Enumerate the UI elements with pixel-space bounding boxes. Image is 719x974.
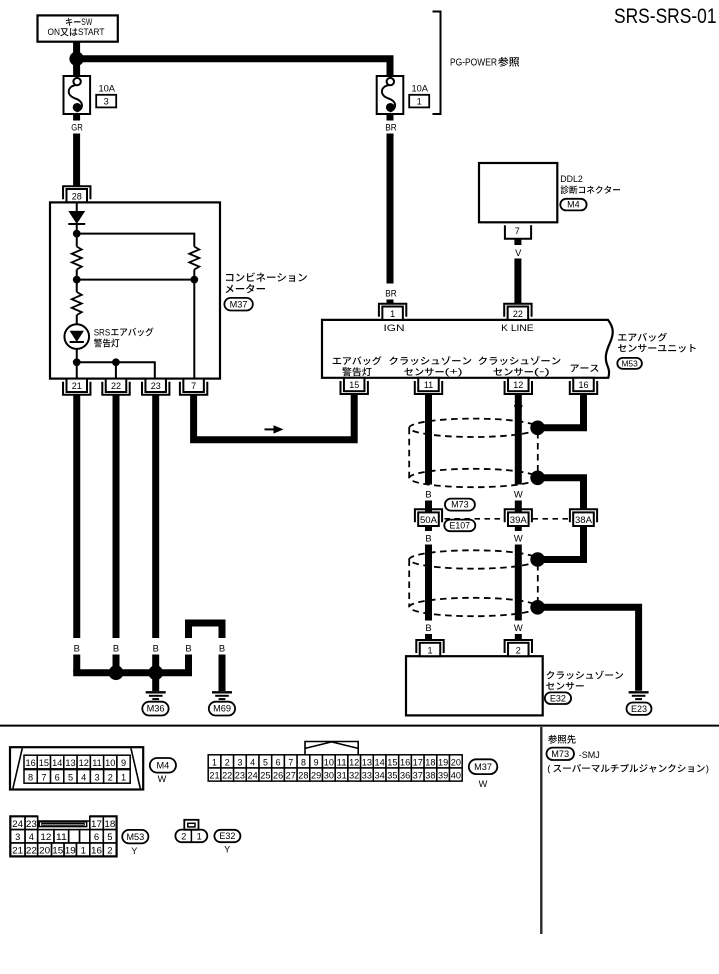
- svg-text:IGN: IGN: [384, 323, 405, 333]
- label SRSエアバッグ警告灯: [94, 327, 154, 347]
- svg-text:W: W: [479, 779, 488, 789]
- wire color label GR: [71, 114, 83, 132]
- svg-text:PG-POWER: PG-POWER: [450, 57, 497, 68]
- wire B into 50A: [425, 501, 432, 513]
- wire B terminal 23 down: [152, 395, 159, 638]
- svg-text:B: B: [425, 622, 431, 633]
- wire V to terminal 22 K LINE: [514, 259, 521, 305]
- wire key switch to junction: [73, 42, 80, 59]
- node meter bottom: [73, 358, 155, 378]
- label BR lower: [385, 288, 397, 299]
- combination meter box: [50, 202, 220, 378]
- svg-text:R: R: [351, 402, 358, 413]
- svg-text:16: 16: [91, 845, 102, 856]
- fuse F1 10A: [64, 76, 91, 114]
- svg-text:9: 9: [121, 758, 126, 768]
- svg-text:50A: 50A: [420, 515, 437, 525]
- svg-text:20: 20: [39, 845, 50, 856]
- wire right leg to ground M69: [219, 655, 226, 692]
- wire B 21 to ground bus: [73, 655, 80, 673]
- svg-text:K LINE: K LINE: [501, 323, 534, 333]
- wire shield1 to terminal 16: [538, 394, 584, 428]
- wire B terminal 21 down: [73, 395, 80, 638]
- wire color labels B B B R: [74, 402, 198, 413]
- svg-text:Y: Y: [131, 846, 137, 856]
- svg-text:33: 33: [362, 771, 372, 781]
- svg-text:19: 19: [438, 757, 448, 767]
- connector pin 7 DDL2: [505, 225, 531, 238]
- label B wire 23: [153, 642, 159, 653]
- junction node shield2 bottom: [530, 600, 545, 615]
- connector id oval E107: [444, 520, 475, 532]
- svg-text:38: 38: [425, 771, 435, 781]
- ground id oval M36: [142, 702, 168, 716]
- wire stub ground M36: [152, 673, 159, 691]
- label B wire 22: [113, 642, 119, 653]
- svg-text:-SMJ: -SMJ: [579, 749, 600, 760]
- svg-text:39A: 39A: [510, 515, 527, 525]
- svg-text:3: 3: [104, 97, 109, 107]
- resistor R1: [72, 247, 82, 270]
- svg-text:(-): (-): [534, 367, 550, 377]
- svg-text:E32: E32: [219, 831, 235, 841]
- connector terminal 28 on combination meter: [63, 186, 90, 202]
- wire shield2 to ground E23: [538, 607, 639, 691]
- svg-text:B: B: [185, 642, 191, 653]
- svg-text:8: 8: [301, 757, 306, 767]
- connector id oval E32 bottom: [214, 830, 240, 855]
- wire shield2 to connector 38A bottom: [538, 526, 584, 560]
- svg-text:5: 5: [107, 831, 112, 842]
- label クラッシュゾーンセンサー E32: [545, 671, 623, 704]
- svg-text:10: 10: [324, 757, 334, 767]
- svg-text:26: 26: [273, 771, 283, 781]
- svg-text:24: 24: [248, 771, 258, 781]
- node meter mid: [73, 270, 198, 284]
- reference divider line: [540, 727, 542, 934]
- svg-text:6: 6: [276, 757, 281, 767]
- separator line: [0, 725, 719, 727]
- wire R terminal 7 to terminal 15: [194, 395, 355, 440]
- svg-text:1: 1: [417, 97, 422, 107]
- title SRS-SRS-01: [614, 4, 717, 28]
- svg-text:7: 7: [515, 226, 520, 236]
- svg-text:11: 11: [424, 380, 433, 390]
- shield cylinder 2: [409, 550, 538, 616]
- connector terminal 1 crash sensor: [416, 640, 443, 656]
- wire junction to fuse F2: [77, 59, 390, 77]
- node meter top: [73, 230, 194, 247]
- svg-text:7: 7: [288, 757, 293, 767]
- connector pin layout M53: [10, 816, 116, 856]
- label B right leg: [219, 642, 225, 653]
- label DDL2 診断コネクター M4: [560, 173, 620, 210]
- svg-text:Y: Y: [224, 844, 230, 854]
- svg-text:V: V: [515, 247, 522, 258]
- reference M73 -SMJ: [547, 748, 600, 760]
- svg-text:B: B: [425, 489, 431, 500]
- svg-text:2: 2: [181, 832, 186, 842]
- svg-text:21: 21: [209, 771, 219, 781]
- SRS warning lamp LED: [64, 324, 89, 349]
- label IGN: [384, 323, 405, 333]
- svg-text:1: 1: [427, 645, 432, 655]
- svg-text:22: 22: [222, 771, 232, 781]
- wire B into crash terminal 1: [425, 634, 432, 640]
- svg-text:18: 18: [425, 757, 435, 767]
- svg-text:SW: SW: [81, 17, 92, 27]
- wire B terminal 11 down: [425, 394, 432, 484]
- wire color label V: [515, 239, 522, 258]
- svg-text:E32: E32: [550, 693, 566, 703]
- svg-text:W: W: [158, 774, 167, 784]
- svg-text:15: 15: [387, 757, 397, 767]
- connector terminal 2 crash sensor: [505, 640, 532, 656]
- svg-text:11: 11: [92, 758, 102, 768]
- svg-text:M69: M69: [213, 704, 231, 714]
- label アース: [571, 365, 599, 372]
- svg-text:M36: M36: [147, 704, 165, 714]
- svg-text:M53: M53: [126, 832, 144, 842]
- svg-text:B: B: [113, 642, 119, 653]
- svg-text:SRS-SRS-01: SRS-SRS-01: [614, 4, 717, 28]
- svg-text:M37: M37: [474, 762, 492, 772]
- svg-text:(: (: [547, 764, 551, 775]
- label エアバッグセンサーユニット M53: [617, 333, 695, 369]
- svg-text:B: B: [74, 642, 80, 653]
- svg-text:4: 4: [29, 831, 34, 842]
- svg-text:1: 1: [81, 845, 86, 856]
- svg-text:14: 14: [375, 757, 385, 767]
- svg-text:13: 13: [65, 758, 75, 768]
- svg-text:11: 11: [337, 757, 347, 767]
- connector terminal 1 IGN: [379, 304, 406, 320]
- svg-text:30: 30: [324, 771, 334, 781]
- svg-text:10A: 10A: [99, 83, 116, 94]
- svg-text:16: 16: [25, 758, 35, 768]
- svg-text:11: 11: [56, 831, 67, 842]
- resistor R3: [72, 280, 82, 325]
- svg-text:39: 39: [438, 771, 448, 781]
- connector id oval M73: [445, 499, 475, 511]
- svg-text:12: 12: [40, 831, 51, 842]
- svg-text:12: 12: [349, 757, 359, 767]
- svg-text:1: 1: [121, 772, 126, 782]
- connector terminal 11: [415, 378, 442, 394]
- connector terminal 12: [505, 378, 532, 394]
- crash zone sensor box: [406, 656, 543, 715]
- svg-text:17: 17: [91, 818, 102, 829]
- svg-text:ON: ON: [48, 27, 61, 38]
- wire B 50A down: [425, 545, 432, 621]
- svg-text:17: 17: [413, 757, 423, 767]
- label W below 39A: [514, 526, 523, 543]
- svg-text:36: 36: [400, 771, 410, 781]
- svg-text:38A: 38A: [575, 515, 592, 525]
- wire B terminal 22 down: [113, 395, 120, 638]
- wire B 22 to ground bus: [113, 655, 120, 673]
- svg-text:10: 10: [105, 758, 115, 768]
- junction node battery feed: [69, 52, 83, 66]
- label スーパーマルチプルジャンクション: [547, 764, 709, 775]
- svg-text:B: B: [153, 642, 159, 653]
- wire color labels R B W: [351, 402, 523, 413]
- svg-text:M4: M4: [567, 200, 580, 210]
- svg-text:E23: E23: [631, 704, 647, 714]
- ground id oval M69: [209, 702, 235, 716]
- label B wire 21: [74, 642, 80, 653]
- svg-text:21: 21: [12, 845, 23, 856]
- svg-text:4: 4: [250, 757, 255, 767]
- svg-text:35: 35: [387, 771, 397, 781]
- flow arrow on R wire: [265, 425, 284, 433]
- svg-text:W: W: [514, 532, 523, 543]
- DDL2 diagnostic connector box: [479, 163, 557, 222]
- connector id oval M37 bottom: [469, 759, 498, 789]
- wire W into 39A: [515, 501, 522, 513]
- svg-text:GR: GR: [71, 121, 83, 132]
- label W above crash sensor: [514, 622, 523, 633]
- svg-text:6: 6: [55, 772, 60, 782]
- svg-text:12: 12: [513, 380, 523, 390]
- connector pin layout E32: [175, 820, 207, 842]
- svg-text:6: 6: [94, 831, 99, 842]
- inline connector 39A: [505, 509, 532, 526]
- svg-text:18: 18: [104, 818, 115, 829]
- ground E23: [629, 692, 649, 699]
- fuse F2 10A: [377, 76, 404, 114]
- wire GR fuse F1 to terminal 28: [73, 134, 80, 187]
- svg-text:22: 22: [111, 381, 121, 391]
- svg-text:): ): [706, 764, 709, 775]
- junction node bus 22: [109, 665, 124, 680]
- wire shield1 to connector 38A: [538, 478, 584, 510]
- svg-text:7: 7: [191, 381, 196, 391]
- wire terminal 28 into meter: [76, 202, 78, 211]
- wire W 39A down: [515, 545, 522, 621]
- label PG-POWER参照: [450, 57, 519, 68]
- ground M36: [146, 692, 166, 699]
- svg-text:23: 23: [151, 381, 161, 391]
- label B left leg: [185, 642, 191, 653]
- svg-text:13: 13: [362, 757, 372, 767]
- svg-text:20: 20: [451, 757, 461, 767]
- connector pin layout M4: [10, 747, 143, 789]
- svg-text:2: 2: [107, 845, 112, 856]
- svg-text:START: START: [78, 27, 105, 38]
- wire W terminal 12 down: [515, 394, 522, 484]
- connector terminal 16: [570, 378, 597, 394]
- ground bus wire: [73, 669, 192, 676]
- connector pin layout M37: [208, 742, 462, 782]
- svg-text:16: 16: [578, 380, 588, 390]
- wire BR to terminal 1 IGN: [387, 300, 394, 305]
- label B above crash sensor: [425, 622, 431, 633]
- label クラッシュゾーンセンサー(-): [478, 356, 560, 377]
- svg-text:27: 27: [286, 771, 296, 781]
- label B below 50A: [425, 526, 431, 543]
- svg-text:DDL2: DDL2: [560, 173, 583, 184]
- connector id oval M53 bottom: [122, 830, 148, 856]
- svg-text:BR: BR: [385, 288, 397, 299]
- svg-text:M73: M73: [551, 749, 569, 759]
- shield cylinder 1: [409, 419, 538, 488]
- svg-text:15: 15: [39, 758, 49, 768]
- airbag sensor unit box: [322, 320, 613, 378]
- svg-text:3: 3: [15, 831, 20, 842]
- wire LED to bottom node: [76, 349, 78, 362]
- ground M69: [212, 692, 232, 699]
- connector terminal 15: [341, 378, 368, 394]
- svg-text:5: 5: [263, 757, 268, 767]
- fuse F1 labels 10A 3: [96, 83, 116, 107]
- inline connector 38A: [570, 509, 597, 526]
- svg-text:M53: M53: [621, 358, 638, 368]
- svg-text:29: 29: [311, 771, 321, 781]
- junction node shield2 top: [530, 552, 545, 567]
- svg-text:2: 2: [108, 772, 113, 782]
- connector terminal 21: [63, 379, 90, 395]
- svg-text:23: 23: [235, 771, 245, 781]
- wire color label BR upper: [385, 114, 397, 132]
- label コンビネーションメーター: [226, 272, 307, 293]
- svg-text:SRS: SRS: [94, 327, 111, 337]
- junction node shield1 top: [530, 421, 545, 436]
- label エアバッグ警告灯 pin15: [333, 356, 382, 376]
- wire W into crash terminal 2: [515, 634, 522, 640]
- svg-text:2: 2: [225, 757, 230, 767]
- label 参照先: [548, 735, 576, 744]
- svg-text:W: W: [514, 622, 523, 633]
- svg-text:5: 5: [68, 772, 73, 782]
- svg-text:21: 21: [72, 381, 82, 391]
- svg-text:28: 28: [298, 771, 308, 781]
- svg-text:M73: M73: [451, 500, 469, 510]
- svg-text:10A: 10A: [412, 83, 429, 94]
- svg-text:1: 1: [390, 309, 395, 319]
- svg-text:34: 34: [375, 771, 385, 781]
- svg-text:37: 37: [413, 771, 423, 781]
- svg-text:B: B: [425, 532, 431, 543]
- wire bus up-over leg: [189, 623, 223, 673]
- junction node bus 23: [148, 665, 163, 680]
- fuse F2 labels 10A 1: [409, 83, 429, 107]
- connector terminal 7 meter: [180, 379, 207, 395]
- svg-text:W: W: [514, 489, 523, 500]
- svg-text:19: 19: [65, 845, 76, 856]
- connector terminal 23: [142, 379, 169, 395]
- svg-text:16: 16: [400, 757, 410, 767]
- svg-text:1: 1: [212, 757, 217, 767]
- svg-text:8: 8: [28, 772, 33, 782]
- svg-text:M37: M37: [230, 299, 248, 309]
- svg-text:BR: BR: [385, 121, 397, 132]
- label クラッシュゾーンセンサー(+): [389, 356, 471, 377]
- svg-text:3: 3: [237, 757, 242, 767]
- svg-text:1: 1: [197, 832, 202, 842]
- inline connector 50A: [415, 509, 442, 526]
- svg-text:(+): (+): [445, 367, 463, 377]
- label W above 39A: [514, 489, 523, 500]
- svg-text:3: 3: [94, 772, 99, 782]
- wire resistor R2 to terminal 7: [193, 280, 195, 379]
- connector id oval M4 bottom: [150, 758, 176, 784]
- junction node shield1 bottom: [530, 471, 545, 486]
- svg-text:15: 15: [349, 380, 359, 390]
- svg-text:40: 40: [451, 771, 461, 781]
- svg-text:E107: E107: [450, 520, 471, 530]
- wire B 23 to ground bus: [152, 655, 159, 673]
- connector terminal 22 K LINE: [504, 304, 531, 320]
- component id oval M37: [224, 298, 252, 311]
- svg-text:12: 12: [79, 758, 89, 768]
- svg-text:22: 22: [26, 845, 37, 856]
- PG-POWER reference bracket: [433, 12, 441, 115]
- svg-text:2: 2: [516, 645, 521, 655]
- svg-text:25: 25: [260, 771, 270, 781]
- label K LINE: [501, 323, 534, 333]
- svg-text:4: 4: [81, 772, 86, 782]
- svg-text:28: 28: [72, 192, 82, 202]
- svg-text:M4: M4: [157, 760, 170, 770]
- svg-text:14: 14: [52, 758, 62, 768]
- svg-text:23: 23: [26, 818, 37, 829]
- svg-text:31: 31: [337, 771, 347, 781]
- SMJ dashed link: [445, 518, 570, 520]
- wire junction to fuse F1: [73, 59, 80, 77]
- wire BR fuse F2 down: [387, 134, 394, 284]
- svg-text:24: 24: [12, 818, 23, 829]
- svg-text:7: 7: [41, 772, 46, 782]
- svg-text:15: 15: [52, 845, 63, 856]
- label B above 50A: [425, 489, 431, 500]
- svg-text:9: 9: [314, 757, 319, 767]
- connector terminal 22: [102, 379, 129, 395]
- svg-text:22: 22: [513, 309, 523, 319]
- ground id oval E23: [627, 703, 652, 715]
- svg-text:B: B: [219, 642, 225, 653]
- key switch box キーSW ON又はSTART: [38, 15, 118, 41]
- svg-text:32: 32: [349, 771, 359, 781]
- resistor R2: [189, 247, 199, 270]
- diode D1: [68, 211, 85, 234]
